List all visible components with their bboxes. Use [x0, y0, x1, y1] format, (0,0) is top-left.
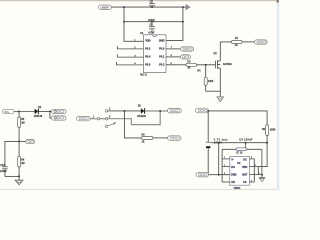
wire VDD branch [257, 167, 259, 175]
resistor R9 [262, 125, 276, 143]
svg-text:CS: CS [243, 181, 247, 184]
port D [181, 55, 191, 59]
battery T1 [206, 111, 229, 175]
wire GND feed right [166, 7, 183, 40]
svg-text:P3.3: P3.3 [145, 63, 151, 66]
svg-text:1R: 1R [235, 44, 238, 47]
wire port H to switch [90, 118, 105, 120]
svg-text:100K: 100K [208, 80, 214, 83]
pin stub U2 pin7 [250, 166, 259, 168]
wire VCC top rail [112, 6, 187, 8]
port L (BAT-) [196, 173, 209, 177]
wire pin P3.0 to port [166, 48, 181, 50]
node R7 rail junction [245, 142, 247, 144]
resistor R3 [186, 61, 197, 70]
svg-text:4.7uF: 4.7uF [148, 32, 155, 35]
wire U2 right loop [253, 159, 255, 182]
svg-text:P3.0: P3.0 [159, 47, 165, 50]
wire t2 to D2 [108, 110, 141, 112]
wire pin P3.2 to R3 [166, 64, 186, 66]
node D1 out junction [49, 110, 51, 112]
svg-text:V-: V- [231, 158, 234, 161]
node divider junction [18, 111, 20, 113]
wire pin P3.1 to port [166, 56, 181, 58]
node ADC junction [18, 140, 20, 142]
wire D2 to port I [145, 110, 168, 112]
port J [168, 136, 181, 140]
diode D2 [137, 105, 146, 118]
svg-text:5V+: 5V+ [4, 110, 9, 114]
pin stub P3.4 left [117, 54, 143, 57]
svg-text:OD: OD [231, 181, 235, 184]
resistor R6 [141, 134, 153, 144]
pin stub U2 pin1 [222, 158, 230, 160]
power arrow VCC [186, 4, 191, 10]
svg-text:C9 100nF: C9 100nF [239, 138, 252, 141]
resistor R4 pulldown [197, 65, 213, 91]
wire U2 left rail [221, 149, 223, 182]
wire node to cap branch [5, 141, 19, 166]
resistor R8 [18, 141, 25, 176]
pin stub U2 pin4 [222, 181, 230, 183]
resistor R1 [232, 37, 243, 47]
diode D1 [34, 106, 43, 118]
ground Q1 [217, 97, 224, 102]
resistor R7 [222, 143, 262, 155]
ground right [259, 149, 265, 181]
wire switch t3 staircase [108, 111, 160, 125]
svg-text:P3.1: P3.1 [145, 47, 151, 50]
node bottom junction [18, 175, 20, 177]
switch terminal pin1 [97, 118, 99, 120]
port F [52, 116, 67, 120]
svg-text:GND: GND [159, 39, 165, 42]
capacitor C8 with labels [148, 19, 155, 34]
node mid rail junction 2 [266, 142, 268, 144]
node junction top-3 [182, 6, 184, 8]
wire left rail down [218, 143, 220, 175]
node D2 out junction [159, 110, 161, 112]
pin stub U2 pin2 [222, 166, 230, 168]
capacitor C13 [0, 164, 8, 176]
pin stub P3.1 left [117, 46, 143, 49]
node junction top-1 [123, 6, 125, 8]
svg-text:1M: 1M [21, 122, 24, 125]
capacitor C7 [149, 0, 155, 7]
svg-text:DW01: DW01 [234, 187, 241, 190]
wire source down [219, 68, 221, 97]
node junction mid-3 [182, 21, 184, 23]
svg-text:1K: 1K [142, 141, 145, 144]
svg-text:P3.4: P3.4 [145, 56, 151, 59]
wire branch to lower port [50, 111, 52, 118]
corner mark [277, 0, 279, 2]
svg-text:1M: 1M [21, 162, 24, 165]
svg-text:MCU: MCU [140, 72, 147, 76]
svg-text:1N4148: 1N4148 [137, 115, 146, 118]
node junction mid-1 [123, 21, 125, 23]
sheet right border [278, 0, 280, 191]
wire R4 bottom to source [206, 90, 221, 92]
port K (BAT+) [196, 108, 209, 113]
port H (switch common) [77, 116, 91, 120]
switch terminal 2 [105, 110, 107, 112]
wire node to port G [19, 140, 26, 142]
svg-text:R7 1K: R7 1K [236, 152, 243, 154]
svg-text:OC: OC [243, 158, 247, 161]
svg-text:P3.1: P3.1 [159, 56, 165, 59]
pin stub U2 pin5 [250, 181, 255, 183]
switch terminal 3 [105, 118, 107, 120]
wire top right rail [208, 111, 267, 125]
port P1 (input supply) [99, 5, 112, 10]
node port L junction [218, 174, 220, 176]
port P5 (5V input) [3, 109, 15, 114]
svg-text:USB5V: USB5V [101, 6, 110, 10]
port C (programming) [181, 47, 194, 51]
svg-text:1K: 1K [187, 67, 190, 70]
wire VDD feed left [124, 7, 144, 41]
node t2 junction [123, 110, 125, 112]
svg-text:VDD: VDD [145, 39, 150, 42]
wire outer wrap 1 [258, 143, 267, 167]
wire R3 to gate [197, 64, 216, 66]
wire R1 to port [242, 41, 255, 43]
sheet bottom border [0, 189, 280, 191]
svg-text:BAT: BAT [242, 173, 247, 176]
op IC U2 DW01 [230, 157, 250, 191]
node battery top junction [207, 110, 209, 112]
node junction top-2 [151, 6, 153, 8]
switch wiper arrow [105, 122, 116, 127]
wire port L to U2 [209, 174, 230, 176]
wire bottom join [5, 175, 19, 177]
wire R6 to port J [153, 137, 168, 139]
port E [52, 109, 67, 113]
wire key branch [124, 111, 141, 138]
wire port to D1 [14, 111, 35, 113]
wire battery mid rail [211, 142, 267, 144]
wire second rail [124, 21, 183, 23]
port LED+ [255, 40, 268, 44]
svg-text:GND: GND [231, 173, 237, 176]
node mid rail junction 1 [218, 142, 220, 144]
pin stub U2 pin8 [250, 158, 255, 160]
port G [26, 139, 35, 143]
port I [168, 109, 182, 113]
svg-text:P3.2: P3.2 [159, 63, 165, 66]
svg-text:100nF: 100nF [0, 170, 7, 173]
node gnd stem junction [261, 174, 263, 176]
wire drain up [219, 42, 221, 61]
wire drain to R1 [220, 41, 231, 43]
sheet top border [0, 0, 280, 2]
ground left [15, 176, 23, 184]
pin stub U2 pin6 [250, 174, 263, 176]
svg-text:100R: 100R [270, 128, 276, 131]
svg-text:1N4148: 1N4148 [34, 115, 43, 118]
wire D1 to ports [39, 110, 52, 112]
resistor R5 [18, 112, 25, 142]
pin stub P3.3 left [117, 62, 144, 65]
op IC U1 MCU [140, 31, 166, 76]
node junction mid-2 [151, 21, 153, 23]
svg-text:VDD: VDD [242, 166, 247, 169]
transistor Q1 [214, 52, 233, 69]
svg-text:AO3416: AO3416 [223, 63, 232, 66]
svg-text:DO: DO [231, 166, 235, 169]
node gate junction [205, 64, 207, 66]
